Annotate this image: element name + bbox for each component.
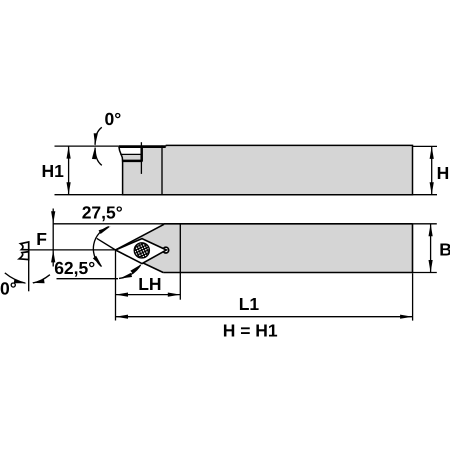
svg-text:62,5°: 62,5°	[54, 258, 95, 278]
head/shank boundary (side view)	[179, 224, 181, 273]
angle 62,5 deg arc	[119, 265, 141, 279]
step in top edge	[165, 145, 167, 146]
dimension H extension bottom	[413, 194, 438, 196]
svg-text:H: H	[437, 163, 450, 183]
svg-text:27,5°: 27,5°	[82, 202, 123, 222]
LH extension line	[179, 273, 181, 300]
insert edge extension line (for 27,5 deg)	[97, 238, 116, 250]
dimension B extension top	[413, 223, 437, 225]
tip vertical extension line	[115, 250, 117, 321]
insert pocket bottom edge (thick)	[122, 160, 142, 163]
svg-text:B: B	[439, 239, 450, 259]
insert pocket right edge (thick)	[140, 146, 143, 162]
bar bottom edge (side view)	[163, 272, 412, 274]
dimension F line	[52, 209, 54, 267]
dimension H1 extension top	[55, 145, 119, 147]
head bottom edge (side view)	[116, 250, 164, 273]
svg-text:0°: 0°	[105, 109, 122, 129]
bar outline (top view)	[119, 145, 413, 194]
toolholder body (side view)	[116, 224, 413, 273]
svg-text:F: F	[36, 229, 47, 249]
dimension H1 extension bottom	[55, 194, 123, 196]
dimension H1 line	[68, 146, 70, 195]
svg-text:H = H1: H = H1	[223, 321, 278, 341]
clamp screw (hatched circle)	[134, 243, 149, 258]
head/shank boundary line (top view)	[161, 145, 163, 194]
angle 0 deg (lower) arrow right	[33, 275, 50, 283]
62,5 horizontal leader	[57, 278, 119, 280]
svg-text:H1: H1	[42, 161, 65, 181]
bar top extension line (to F)	[53, 223, 164, 225]
tip height line	[29, 249, 116, 251]
head top edge (side view)	[116, 224, 165, 250]
L1 right extension line	[412, 273, 414, 320]
bar right edge (side view)	[412, 224, 414, 273]
dimension L1 line	[116, 316, 413, 318]
angle 0 deg (top view) arrow upper	[95, 127, 102, 145]
insert mid line (thin)	[120, 153, 141, 155]
angle 0 deg (lower) arrow left	[5, 273, 26, 283]
angle 27,5 deg arc	[93, 227, 109, 267]
angle 0 deg (top view) arrow lower	[95, 148, 102, 166]
insert pocket top edge (thick)	[119, 145, 166, 148]
dimension LH line	[116, 294, 181, 296]
dimension H line	[431, 146, 433, 194]
toolholder body (top view)	[119, 145, 413, 194]
dimension B line	[430, 224, 432, 273]
pin hole (small circle)	[163, 247, 169, 253]
insert centerline (top view)	[140, 142, 142, 174]
svg-text:LH: LH	[138, 274, 161, 294]
insert pocket white area (top view)	[119, 147, 142, 154]
edge reference flag symbol	[21, 242, 29, 250]
insert diamond	[116, 239, 167, 264]
svg-text:L1: L1	[239, 294, 260, 314]
bar top edge (side view)	[164, 223, 413, 225]
dimension H extension top	[413, 145, 438, 147]
flag extension line	[28, 242, 30, 292]
dimension B extension bottom	[413, 272, 437, 274]
